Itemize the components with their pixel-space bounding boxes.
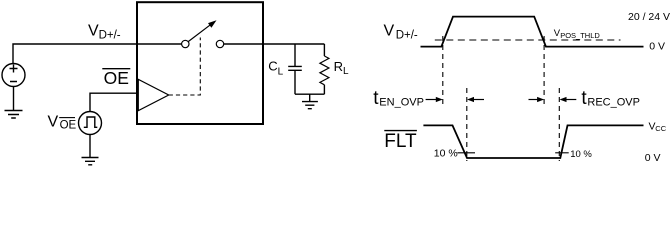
svg-text:OE: OE bbox=[60, 119, 77, 131]
svg-text:REC_OVP: REC_OVP bbox=[587, 97, 640, 109]
voltage source V1 bbox=[2, 64, 25, 87]
svg-text:20 / 24 V: 20 / 24 V bbox=[628, 11, 670, 23]
svg-text:V: V bbox=[48, 114, 59, 131]
resistor RL bbox=[320, 44, 329, 94]
timing label VD+/- bbox=[384, 22, 418, 41]
arrow tEN right bbox=[467, 97, 484, 102]
switch S1 arm bbox=[188, 24, 211, 41]
svg-text:L: L bbox=[343, 66, 349, 77]
dashed marker line t3 bbox=[543, 36, 545, 105]
tick 10 percent right bbox=[555, 152, 569, 154]
wire VOE to ground bbox=[89, 135, 91, 158]
label tREC_OVP bbox=[581, 88, 640, 109]
svg-text:OE: OE bbox=[104, 68, 129, 88]
wire switch to box edge bbox=[224, 43, 263, 45]
svg-text:D+/-: D+/- bbox=[99, 30, 121, 42]
wire capacitor to bottom bbox=[294, 71, 296, 94]
label RL bbox=[334, 59, 349, 77]
wire into switch left bbox=[137, 43, 182, 45]
waveform VD trapezoid bbox=[421, 17, 644, 47]
ground GND1 bbox=[5, 111, 23, 119]
DUT box U1 bbox=[137, 2, 263, 124]
svg-text:R: R bbox=[334, 59, 343, 74]
label FLT with overline bbox=[384, 131, 417, 153]
label tEN_OVP bbox=[373, 88, 424, 109]
buffer amplifier A1 bbox=[138, 79, 168, 110]
label OE with overline bbox=[102, 68, 130, 88]
svg-text:C: C bbox=[268, 59, 277, 74]
arrow tREC left bbox=[529, 97, 545, 102]
svg-text:D+/-: D+/- bbox=[396, 30, 418, 42]
ground GND3 bbox=[302, 102, 318, 109]
svg-text:L: L bbox=[278, 66, 284, 77]
arrow tEN left bbox=[426, 97, 443, 102]
svg-text:0 V: 0 V bbox=[649, 41, 665, 53]
svg-text:10 %: 10 % bbox=[570, 149, 592, 160]
switch S1 contact left bbox=[182, 40, 189, 47]
dashed marker line t4 bbox=[558, 88, 560, 161]
dashed marker line t1 bbox=[442, 36, 444, 105]
svg-text:0 V: 0 V bbox=[645, 152, 661, 164]
svg-text:POS_THLD: POS_THLD bbox=[560, 31, 600, 40]
waveform FLT bbox=[423, 125, 643, 158]
switch S1 contact right bbox=[216, 40, 223, 47]
wire to capacitor bbox=[294, 44, 296, 66]
wire load bottom bbox=[295, 93, 324, 95]
svg-text:V: V bbox=[384, 22, 395, 39]
tick 10 percent left bbox=[457, 152, 475, 154]
label CL bbox=[268, 59, 283, 78]
wire V1 to ground bbox=[13, 87, 15, 111]
threshold dashed line VPOS_THLD bbox=[435, 39, 621, 41]
label VOE with overline bbox=[48, 114, 77, 132]
svg-text:FLT: FLT bbox=[384, 131, 417, 152]
dashed marker line t2 bbox=[466, 88, 468, 161]
ground GND2 bbox=[82, 158, 99, 165]
arrow tREC right bbox=[560, 97, 577, 102]
node label VD+/- bbox=[88, 23, 121, 42]
svg-text:V: V bbox=[88, 23, 99, 40]
label VPOS_THLD bbox=[554, 28, 601, 40]
wire VOE to OE input bbox=[90, 93, 137, 111]
wire to ground load bbox=[309, 94, 311, 101]
svg-text:10 %: 10 % bbox=[434, 147, 458, 159]
pulse source VOE bbox=[79, 112, 102, 135]
capacitor CL bbox=[288, 66, 302, 70]
dashed control line bbox=[169, 38, 201, 96]
wire top net VD bbox=[13, 44, 137, 64]
switch S1 arrowhead bbox=[208, 20, 217, 28]
wire box to load bbox=[263, 43, 324, 45]
svg-text:EN_OVP: EN_OVP bbox=[379, 97, 424, 109]
label VCC bbox=[649, 121, 667, 133]
svg-text:CC: CC bbox=[655, 124, 666, 133]
svg-text:t: t bbox=[373, 88, 379, 109]
